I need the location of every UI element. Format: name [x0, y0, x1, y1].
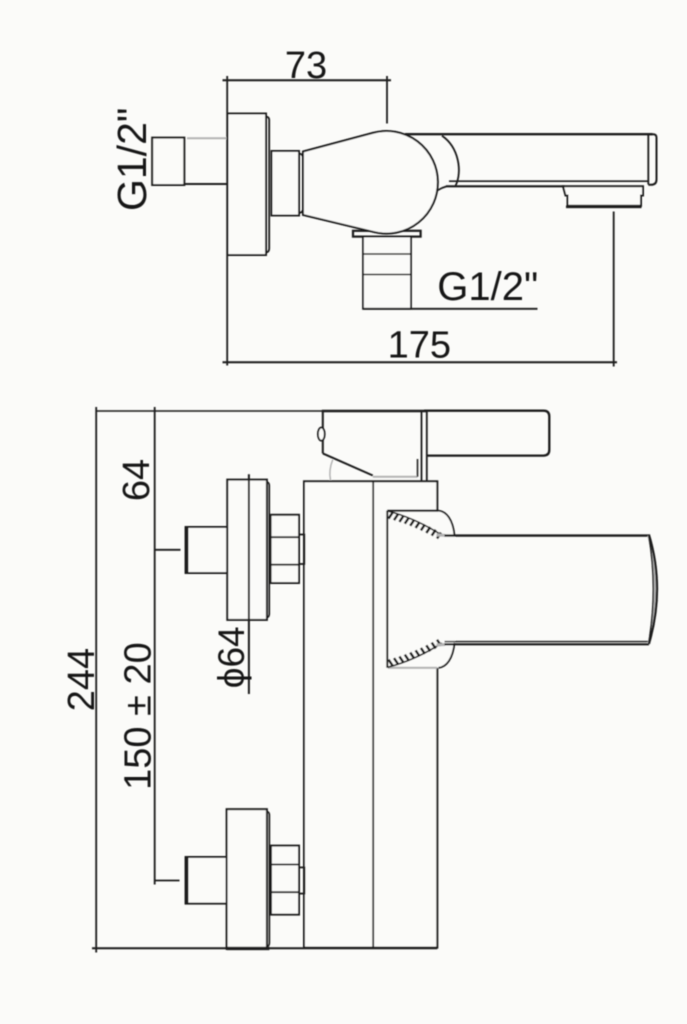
svg-text:G1/2": G1/2": [437, 265, 538, 309]
svg-text:G1/2": G1/2": [109, 108, 155, 211]
svg-text:244: 244: [61, 648, 103, 711]
svg-text:150 ± 20: 150 ± 20: [118, 642, 160, 790]
svg-text:64: 64: [116, 459, 158, 501]
svg-text:ϕ64: ϕ64: [211, 626, 252, 688]
svg-text:73: 73: [285, 45, 327, 87]
svg-text:175: 175: [388, 325, 451, 367]
